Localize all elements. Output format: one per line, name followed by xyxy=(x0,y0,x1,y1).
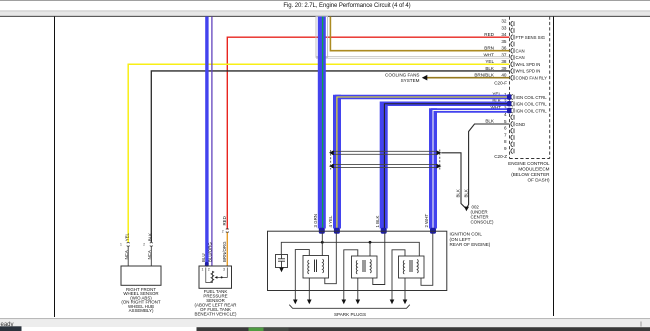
svg-text:BRN: BRN xyxy=(484,46,494,51)
right front wheel sensor box xyxy=(121,266,161,285)
svg-text:RED: RED xyxy=(484,32,494,37)
capacitor symbol xyxy=(278,255,285,268)
svg-text:IGNITION COIL: IGNITION COIL xyxy=(450,232,483,237)
svg-text:6: 6 xyxy=(504,126,507,131)
svg-text:BLK: BLK xyxy=(455,189,460,197)
dark blue pin caps at coil box xyxy=(319,228,325,234)
svg-text:33: 33 xyxy=(501,25,507,30)
coil2 spark wire left xyxy=(344,250,358,300)
highlighted wire YEL pin1 IGN COIL CTRL xyxy=(335,95,510,99)
coil3 spark wire left xyxy=(392,250,405,300)
rotated wire labels above coil xyxy=(313,214,429,228)
ECM label xyxy=(508,161,550,183)
svg-text:BLU: BLU xyxy=(201,253,206,262)
wire BRN/BLK pin40 COND FAN RLY xyxy=(426,77,510,79)
svg-text:2: 2 xyxy=(208,267,210,271)
pair right end arrows xyxy=(437,150,442,155)
svg-text:2 WHT: 2 WHT xyxy=(424,214,429,228)
capacitor box xyxy=(276,255,288,268)
taskbar dark left block xyxy=(0,326,22,331)
svg-text:4: 4 xyxy=(504,112,507,117)
svg-text:NCA: NCA xyxy=(147,250,152,259)
wire RED pin34 FTP SENS SIG xyxy=(227,37,509,229)
pair left end arrows xyxy=(329,150,334,155)
svg-text:BLK: BLK xyxy=(485,66,495,71)
coil 2 box xyxy=(352,256,378,278)
wire BRN pin36 CAN xyxy=(330,17,509,51)
junction dot B xyxy=(369,241,372,244)
svg-text:35: 35 xyxy=(501,39,507,44)
svg-text:GND: GND xyxy=(516,122,526,127)
svg-text:36: 36 xyxy=(501,46,507,51)
fuel sensor label xyxy=(195,289,237,317)
spark plug arrows xyxy=(293,300,407,305)
shield drain wire to ground 002 xyxy=(441,153,466,209)
svg-text:BENEATH VEHICLE): BENEATH VEHICLE) xyxy=(195,312,237,317)
coil 1 core xyxy=(314,260,316,273)
fuel sensor internal resistor xyxy=(211,271,214,282)
ignition coil label xyxy=(450,232,491,248)
resize grip xyxy=(641,322,642,327)
svg-text:SPARK PLUGS: SPARK PLUGS xyxy=(334,312,366,317)
ECM box right dashed edge xyxy=(549,17,551,159)
fuel tank pressure sensor box xyxy=(199,266,232,288)
highlighted wire BLK pin2 IGN COIL CTRL xyxy=(382,102,510,106)
coil1 secondary top feed xyxy=(321,233,323,257)
fuel sensor pin numbers xyxy=(202,267,226,271)
ground 002 arrow xyxy=(464,207,469,212)
coil2 control wire hook (BLK) xyxy=(373,233,385,285)
rotated labels wheel sensor xyxy=(124,232,153,259)
function labels upper connector xyxy=(516,35,548,81)
wire BLU highlighted to fuel sensor pin1 xyxy=(205,17,208,265)
svg-text:32: 32 xyxy=(501,19,507,24)
svg-text:OF DASH): OF DASH) xyxy=(528,178,550,183)
ground 002 label xyxy=(471,205,494,225)
svg-text:BLK: BLK xyxy=(485,118,495,123)
svg-text:39: 39 xyxy=(501,66,507,71)
svg-text:COOLING FANS: COOLING FANS xyxy=(385,73,419,78)
capacitor ground arrow xyxy=(279,268,284,273)
cooling fans label xyxy=(385,73,420,83)
wire YEL pin38 WHL SPD IN xyxy=(128,64,509,242)
svg-text:BLK: BLK xyxy=(463,189,468,197)
svg-text:COND FAN RLY: COND FAN RLY xyxy=(516,76,548,81)
top border of drawing xyxy=(0,16,650,17)
highlighted wire WHT pin3 IGN COIL CTRL xyxy=(431,108,510,112)
right page border line xyxy=(553,17,554,317)
svg-text:C20-F: C20-F xyxy=(494,81,507,86)
svg-text:YEL: YEL xyxy=(485,59,494,64)
coil 3 box xyxy=(399,256,425,278)
svg-text:38: 38 xyxy=(501,59,507,64)
svg-text:MODULE/ECM: MODULE/ECM xyxy=(518,167,549,172)
svg-text:SYSTEM: SYSTEM xyxy=(401,78,420,83)
wheel sensor lead yellow lower xyxy=(127,247,129,267)
coil3 spark wire right xyxy=(404,278,406,300)
coil 1 box xyxy=(303,256,329,279)
svg-text:Fig. 20: 2.7L, Engine Performa: Fig. 20: 2.7L, Engine Performance Circui… xyxy=(283,3,410,9)
highlighted wire GRN from top (coil 1) xyxy=(318,17,326,229)
function labels lower connector xyxy=(516,95,548,127)
coil1 control wire hook (YEL) xyxy=(325,233,337,284)
svg-text:BLU/ORG: BLU/ORG xyxy=(207,242,212,262)
svg-text:34: 34 xyxy=(501,32,507,37)
svg-text:YEL: YEL xyxy=(124,232,129,241)
svg-text:IGN COIL CTRL: IGN COIL CTRL xyxy=(516,108,548,113)
svg-text:IGN COIL CTRL: IGN COIL CTRL xyxy=(516,102,548,107)
svg-text:1: 1 xyxy=(120,243,122,247)
coil3 control wire hook (WHT) xyxy=(421,233,433,286)
svg-text:(BELOW CENTER: (BELOW CENTER xyxy=(511,172,550,177)
svg-text:ASSEMBLY): ASSEMBLY) xyxy=(129,308,154,313)
coil 1 primary winding xyxy=(308,260,309,274)
svg-text:3: 3 xyxy=(223,267,225,271)
taskbar green segment xyxy=(249,328,264,331)
connector dashed link at pair right ends xyxy=(439,150,441,171)
svg-text:RED: RED xyxy=(222,216,227,225)
cooling fans arrow xyxy=(422,75,428,81)
svg-text:CONSOLE): CONSOLE) xyxy=(471,220,494,225)
wheel sensor lead black lower xyxy=(150,247,152,267)
svg-text:BLK: BLK xyxy=(148,233,153,241)
wire color labels lower connector xyxy=(485,91,502,123)
svg-text:1 BLK: 1 BLK xyxy=(375,215,380,227)
twisted pair 1 xyxy=(332,151,437,154)
wire color labels upper connector xyxy=(474,32,495,78)
coil 1 secondary winding xyxy=(323,259,324,273)
svg-text:4 YEL: 4 YEL xyxy=(328,215,333,227)
common feed line xyxy=(281,242,419,256)
svg-text:2: 2 xyxy=(143,243,145,247)
svg-text:CAN: CAN xyxy=(516,55,525,60)
ECM box bottom dashed edge xyxy=(510,158,550,160)
svg-text:IGN COIL CTRL: IGN COIL CTRL xyxy=(516,95,548,100)
svg-text:ENGINE CONTROL: ENGINE CONTROL xyxy=(508,161,550,166)
spark plugs brace xyxy=(289,305,410,309)
svg-text:2: 2 xyxy=(222,229,224,233)
coil 3 secondary winding xyxy=(417,259,418,273)
svg-text:WHL SPD IN: WHL SPD IN xyxy=(516,62,541,67)
wheel sensor label xyxy=(121,287,161,313)
wire BLK pin5 GND to ground 002 xyxy=(467,124,510,208)
svg-text:3 GRN: 3 GRN xyxy=(313,214,318,227)
dark blue caps at ECM connector end xyxy=(507,94,511,99)
wire BLU/ORG violet xyxy=(211,17,213,267)
svg-text:BRN/ORG: BRN/ORG xyxy=(222,241,227,262)
coil2 secondary top feed xyxy=(369,242,371,256)
pin bracket symbols C20-Z xyxy=(511,95,514,154)
svg-text:REAR OF ENGINE): REAR OF ENGINE) xyxy=(450,242,491,247)
wire WHT pin37 CAN (double gray line) xyxy=(316,55,510,57)
svg-text:9: 9 xyxy=(504,146,507,151)
twisted pair 2 xyxy=(332,165,437,168)
coil1 spark wire left xyxy=(295,250,309,300)
left page border line xyxy=(54,17,55,318)
coil 2 primary winding xyxy=(356,260,357,274)
svg-text:WHL SPD IN: WHL SPD IN xyxy=(516,69,541,74)
wire BRN/ORG to fuel sensor pin3 xyxy=(226,233,228,267)
coil 3 core xyxy=(409,260,411,272)
BLU pin cap xyxy=(205,262,209,267)
rotated wire labels fuel sensor xyxy=(201,216,227,262)
pin numbers lower connector xyxy=(494,92,507,159)
svg-text:8: 8 xyxy=(504,139,507,144)
taskbar dark bar xyxy=(197,327,650,331)
ECM box left dashed edge xyxy=(509,17,511,159)
shield box (CAN pair) xyxy=(316,17,328,58)
BLK rotated labels near ground xyxy=(455,189,468,197)
pin bracket symbols C20-F xyxy=(511,21,514,80)
wire BLK pin39 WHL SPD IN xyxy=(151,71,509,242)
junction dot A xyxy=(321,241,324,244)
inline connectors on wheel sensor wires xyxy=(127,243,153,247)
pin numbers upper connector xyxy=(494,19,507,86)
svg-text:7: 7 xyxy=(504,132,507,137)
fuel sensor internal wiring xyxy=(206,268,213,283)
connector dashed link at pair left ends xyxy=(330,150,332,170)
coil 3 primary winding xyxy=(403,260,404,274)
svg-text:NCA: NCA xyxy=(124,250,129,259)
coil2 spark wire right xyxy=(357,278,359,300)
svg-text:CAN: CAN xyxy=(516,49,525,54)
svg-text:C20-Z: C20-Z xyxy=(494,154,507,159)
coil 2 secondary winding xyxy=(370,259,371,273)
svg-text:FTP SENS SIG: FTP SENS SIG xyxy=(516,35,546,40)
toolbar gray band xyxy=(0,11,650,16)
svg-text:1: 1 xyxy=(202,267,204,271)
svg-text:(ON LEFT: (ON LEFT xyxy=(450,237,471,242)
coil 2 core xyxy=(362,260,364,272)
ignition coil outer box xyxy=(268,231,447,290)
title bar top hairline xyxy=(0,0,650,1)
coil1 spark wire right xyxy=(308,278,310,300)
svg-text:5: 5 xyxy=(504,119,507,124)
